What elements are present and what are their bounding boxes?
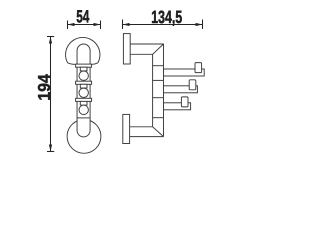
arrows 194: [49, 37, 52, 44]
wall plate top: [123, 34, 130, 64]
bottom arm: [130, 127, 164, 137]
dim line: [50, 37, 52, 152]
right tick: [100, 21, 102, 30]
flange 3: [76, 98, 92, 101]
mitre bottom: [153, 127, 164, 137]
post ladder lines: [153, 65, 164, 67]
hook 1 tab: [195, 63, 202, 73]
ball 3: [79, 105, 88, 114]
right tick: [202, 20, 204, 30]
hook 2 tab: [189, 80, 196, 90]
neck 2: [80, 84, 87, 88]
label 134,5: [152, 11, 182, 26]
hook 1 arm: [164, 69, 205, 76]
neck 3: [80, 101, 87, 105]
hook 3 tab: [181, 97, 188, 107]
cheek left: [68, 63, 76, 65]
label 194: [38, 74, 50, 99]
bottom tick: [47, 151, 54, 153]
arrows 134,5: [123, 23, 130, 26]
post bar (stadium): [77, 44, 90, 137]
cheek right: [92, 63, 98, 65]
collar line: [77, 117, 90, 119]
hook 2 arm: [164, 86, 198, 93]
ball 2: [79, 88, 88, 97]
left tick: [67, 21, 69, 30]
bottom rosette circle: [67, 119, 101, 153]
arrows 54: [68, 23, 75, 26]
label 54: [77, 10, 90, 22]
top tick: [47, 36, 54, 38]
flange 2: [76, 81, 92, 84]
wall plate bottom: [123, 114, 130, 143]
ball 1: [79, 71, 88, 80]
dim line: [68, 24, 101, 26]
mitre top: [153, 44, 164, 54]
neck 1: [80, 67, 87, 71]
dim line: [123, 24, 203, 26]
flange 1: [76, 64, 92, 67]
left tick: [122, 20, 124, 30]
top rosette outline: [66, 37, 100, 62]
hook 3 arm: [164, 103, 191, 110]
top arm + post outline: [130, 44, 163, 137]
